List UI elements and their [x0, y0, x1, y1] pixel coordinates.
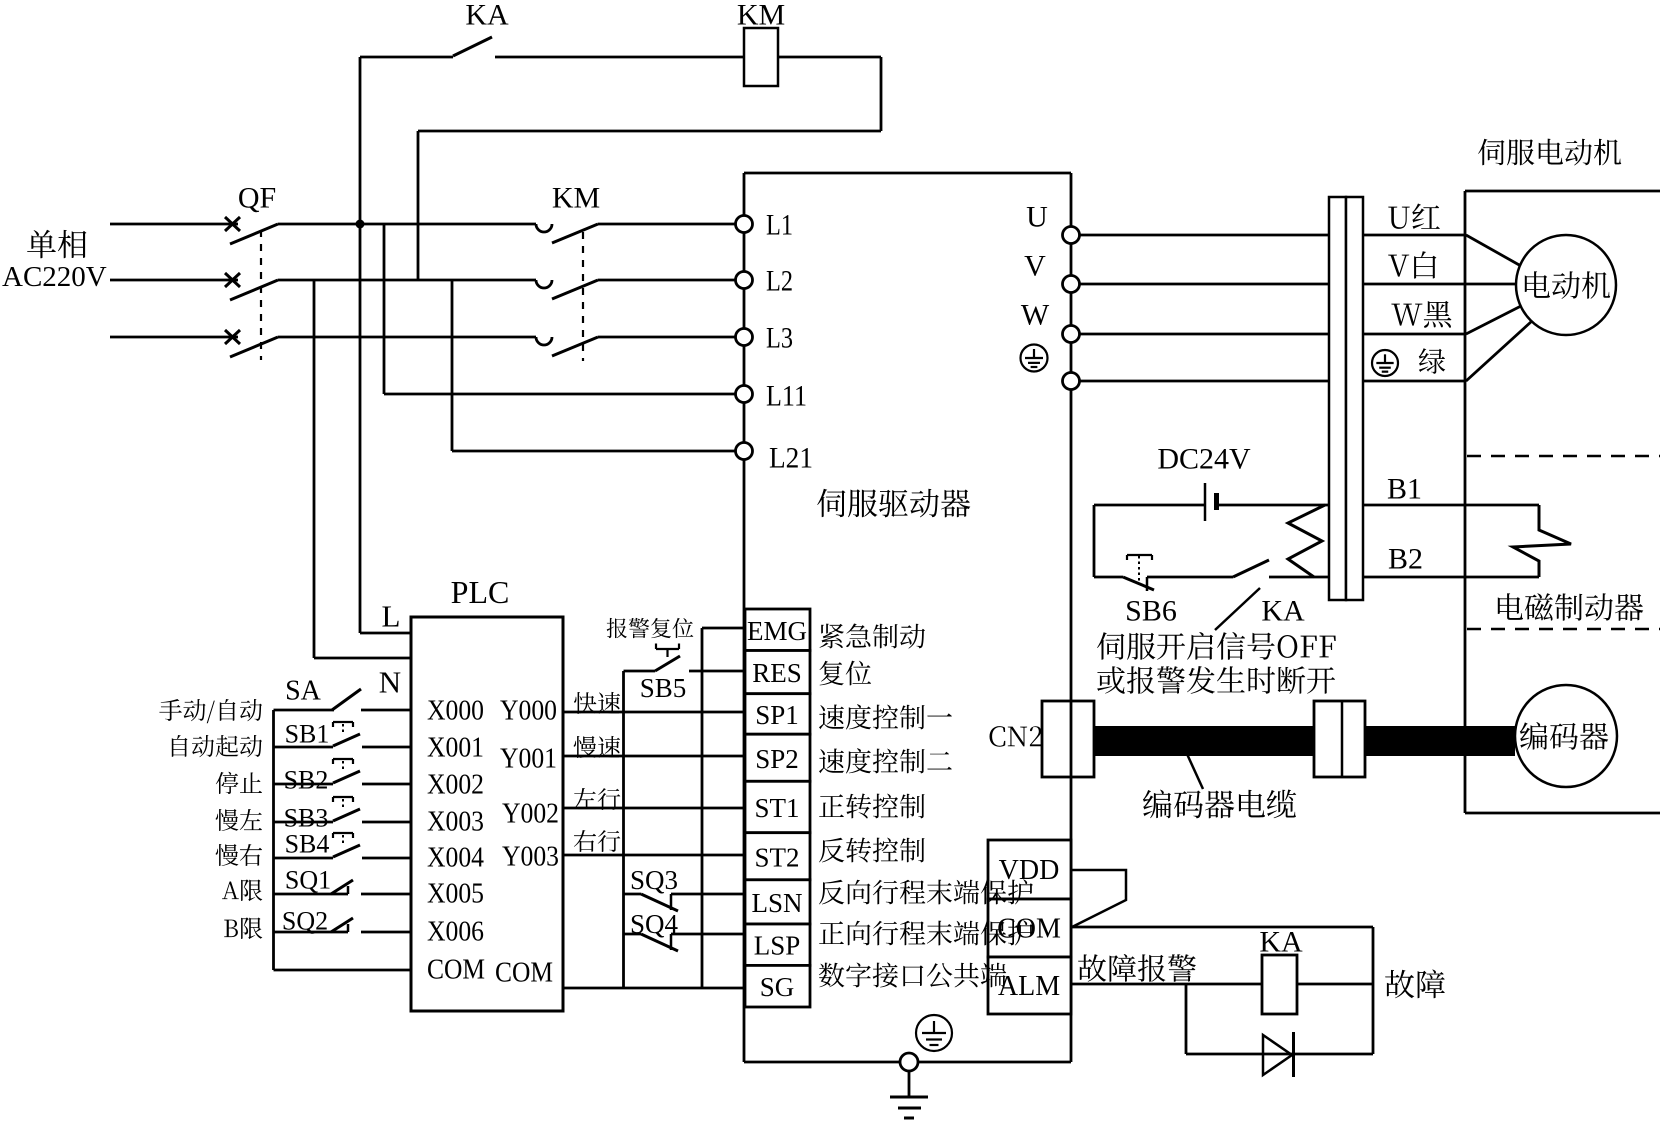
svg-text:L2: L2	[766, 265, 793, 298]
svg-text:KA: KA	[1261, 595, 1305, 628]
svg-text:Y001: Y001	[500, 744, 557, 775]
svg-text:W: W	[1021, 299, 1050, 332]
svg-text:SA: SA	[285, 676, 322, 707]
svg-text:SQ3: SQ3	[630, 865, 678, 895]
svg-text:SB4: SB4	[285, 830, 330, 859]
svg-text:ST2: ST2	[754, 842, 799, 872]
svg-text:KM: KM	[737, 0, 785, 32]
svg-text:SQ4: SQ4	[630, 909, 679, 939]
svg-text:ALM: ALM	[998, 971, 1060, 1002]
svg-text:KA: KA	[465, 0, 509, 32]
svg-text:PLC: PLC	[451, 574, 510, 610]
svg-text:SG: SG	[760, 972, 795, 1002]
svg-text:SP2: SP2	[755, 744, 799, 774]
svg-text:QF: QF	[238, 182, 276, 215]
svg-text:SQ2: SQ2	[282, 907, 328, 936]
svg-text:X002: X002	[427, 770, 484, 801]
svg-text:COM: COM	[495, 958, 553, 989]
svg-text:X005: X005	[427, 879, 484, 910]
svg-text:Y002: Y002	[502, 799, 559, 830]
svg-text:SB1: SB1	[285, 720, 330, 749]
svg-text:LSP: LSP	[754, 931, 801, 961]
svg-text:U: U	[1026, 201, 1048, 234]
svg-text:AC220V: AC220V	[2, 261, 107, 293]
svg-text:ST1: ST1	[754, 793, 799, 823]
svg-text:X006: X006	[427, 917, 484, 948]
svg-text:L11: L11	[766, 380, 807, 413]
svg-text:L: L	[382, 599, 401, 634]
svg-text:COM: COM	[997, 914, 1061, 945]
svg-text:SP1: SP1	[755, 700, 799, 730]
svg-text:Y000: Y000	[500, 696, 557, 727]
svg-text:KA: KA	[1259, 926, 1303, 959]
svg-text:X001: X001	[427, 733, 484, 764]
svg-text:B2: B2	[1388, 543, 1423, 576]
svg-text:Y003: Y003	[502, 842, 559, 873]
svg-text:SB3: SB3	[284, 804, 329, 833]
svg-text:L1: L1	[766, 209, 793, 242]
svg-text:X000: X000	[427, 696, 484, 727]
svg-text:L21: L21	[769, 442, 813, 475]
svg-text:KM: KM	[552, 182, 600, 215]
svg-text:V: V	[1024, 250, 1046, 283]
svg-text:SQ1: SQ1	[285, 866, 331, 895]
svg-text:B1: B1	[1387, 473, 1422, 506]
svg-text:DC24V: DC24V	[1157, 443, 1251, 476]
svg-text:X003: X003	[427, 807, 484, 838]
svg-text:LSN: LSN	[751, 888, 802, 918]
svg-text:RES: RES	[752, 658, 802, 688]
svg-text:SB6: SB6	[1125, 595, 1177, 628]
svg-text:COM: COM	[427, 955, 485, 986]
svg-text:SB2: SB2	[284, 766, 329, 795]
svg-text:SB5: SB5	[640, 673, 687, 703]
svg-text:L3: L3	[766, 322, 793, 355]
svg-text:VDD: VDD	[999, 855, 1060, 886]
svg-text:X004: X004	[427, 843, 484, 874]
svg-text:N: N	[379, 665, 401, 700]
svg-text:EMG: EMG	[747, 616, 807, 646]
